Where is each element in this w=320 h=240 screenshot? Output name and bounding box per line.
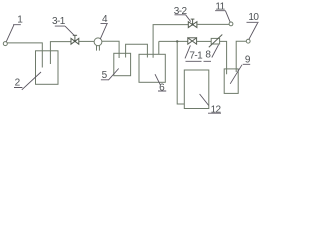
svg-text:3-1: 3-1 xyxy=(52,16,66,27)
wire inlet to vessel 2 xyxy=(7,43,42,68)
leader label 11 xyxy=(215,11,230,22)
regulator 8 xyxy=(211,38,219,44)
leader label 2 xyxy=(14,72,41,90)
pump 4 legs xyxy=(97,46,100,51)
svg-text:3-2: 3-2 xyxy=(174,6,188,17)
vent port circle 11 xyxy=(229,22,233,26)
regulator 8 slash xyxy=(209,35,223,48)
vessel 6 xyxy=(139,54,165,82)
wire vessel 5 outlet to vessel 6 xyxy=(126,44,148,57)
leader label 8 xyxy=(204,45,219,62)
wire valve 3-1 to pump 4 xyxy=(79,40,94,42)
vessel 5 xyxy=(114,53,131,75)
svg-text:12: 12 xyxy=(211,104,222,115)
leader label 12 xyxy=(200,94,221,113)
wire vessel 6 to top bypass line xyxy=(153,25,188,58)
leader label 1 xyxy=(6,25,20,42)
wire valve 7-1 to regulator 8 xyxy=(197,40,212,42)
wire vessel 2 outlet tube to valve 3-1 xyxy=(50,42,71,64)
inlet port circle 1 xyxy=(3,42,7,46)
svg-text:11: 11 xyxy=(215,2,225,13)
wire pump 4 to vessel 5 xyxy=(102,41,119,58)
wire junction down to vessel 12 xyxy=(177,41,184,104)
leader label 9 xyxy=(230,64,250,84)
wire vessel 6 outlet to valve 7-1 xyxy=(159,41,188,54)
vessel 12 xyxy=(184,70,209,109)
valve 7-1 xyxy=(188,38,197,44)
svg-text:7-1: 7-1 xyxy=(189,50,203,61)
junction node xyxy=(176,40,178,42)
outlet port circle 10 xyxy=(246,39,250,43)
vessel 9 xyxy=(224,69,238,94)
leader label 6 xyxy=(155,74,166,91)
pump 4 xyxy=(94,38,102,46)
leader label 5 xyxy=(101,69,119,81)
leader label 3-2 xyxy=(175,15,191,22)
svg-text:10: 10 xyxy=(248,12,259,23)
wire valve 3-2 to vent circle 11 xyxy=(197,23,229,25)
leader label 4 xyxy=(100,24,108,40)
wire regulator 8 to vessel 9 xyxy=(220,41,227,74)
vessel 2 xyxy=(36,51,59,85)
valve 3-1 xyxy=(71,35,79,44)
leader label 3-1 xyxy=(55,26,75,35)
leader label 10 xyxy=(247,22,259,39)
wire vessel 9 outlet to outlet circle 10 xyxy=(236,41,246,72)
leader label 7-1 xyxy=(185,45,202,61)
valve 3-2 xyxy=(188,19,197,27)
